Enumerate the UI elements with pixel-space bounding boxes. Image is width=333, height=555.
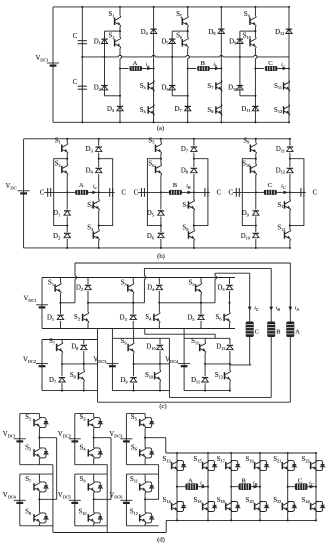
svg-text:C: C (73, 33, 78, 40)
svg-text:C: C (121, 189, 126, 196)
svg-text:iA: iA (295, 306, 300, 312)
svg-text:B: B (241, 478, 246, 485)
svg-text:B: B (173, 182, 178, 189)
svg-text:C: C (255, 329, 259, 336)
svg-text:iC: iC (309, 481, 314, 487)
svg-text:C: C (268, 182, 273, 189)
svg-text:C: C (217, 189, 222, 196)
svg-text:ia: ia (200, 481, 204, 487)
svg-text:C: C (268, 60, 273, 67)
svg-text:iB: iB (186, 184, 191, 190)
svg-text:iC: iC (281, 184, 286, 190)
svg-text:C: C (134, 189, 139, 196)
svg-text:iB: iB (276, 306, 281, 312)
svg-text:A: A (295, 329, 300, 336)
svg-text:C: C (73, 79, 78, 86)
svg-text:iB: iB (253, 481, 258, 487)
svg-text:(a): (a) (157, 125, 164, 132)
svg-text:ic: ic (281, 62, 285, 68)
svg-text:C: C (313, 189, 318, 196)
svg-text:A: A (133, 60, 138, 67)
svg-text:C: C (229, 189, 234, 196)
svg-text:B: B (276, 329, 280, 336)
svg-text:C: C (40, 189, 45, 196)
svg-text:C: C (298, 478, 303, 485)
svg-text:A: A (188, 478, 193, 485)
svg-text:B: B (200, 60, 205, 67)
svg-text:(c): (c) (159, 403, 166, 410)
svg-text:A: A (79, 182, 84, 189)
svg-text:ia: ia (93, 184, 97, 190)
svg-text:(b): (b) (157, 253, 165, 260)
svg-text:ia: ia (146, 62, 150, 68)
svg-text:iC: iC (254, 306, 259, 312)
svg-text:(d): (d) (157, 537, 165, 544)
